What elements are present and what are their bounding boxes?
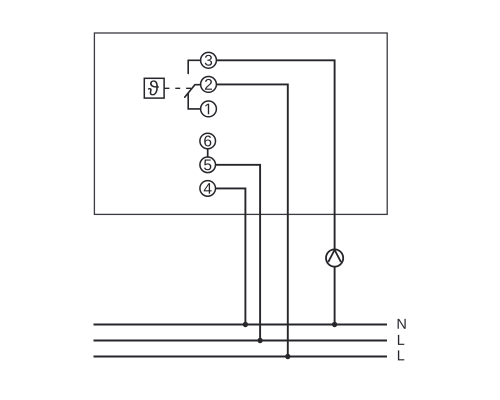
label L2 [398,350,404,360]
bus line L2 [94,356,388,358]
terminal 3 [201,52,217,68]
changeover switch lever (common, terminal 2) [185,85,201,98]
wire terminal 4 to bus N [216,188,246,324]
junction 2-L2 [285,354,290,359]
terminal 6 [200,133,216,149]
bus line N [94,324,388,326]
label N [398,319,406,329]
bus line L1 [94,340,388,342]
terminal 5 [200,157,216,173]
wire terminal 3 to pump [217,60,335,249]
temperature sensor theta symbol [148,80,159,95]
wire terminal 2 to bus L2 [217,84,288,356]
terminal 4 [200,181,216,197]
changeover switch contact lower (to terminal 1) [188,93,200,109]
temperature sensor box [144,78,164,98]
junction pump-N [332,322,337,327]
label L1 [398,335,404,345]
junction 4-N [243,322,248,327]
pump (circle with triangle) [326,249,343,266]
junction 5-L1 [257,338,262,343]
terminal 1 [201,101,217,117]
wire pump to bus N [334,267,336,325]
device outline [94,33,387,214]
terminal 2 [201,77,217,93]
changeover switch contact upper (to terminal 3) [188,60,200,73]
wire terminal 5 to bus L1 [216,165,261,341]
dashed actuator link [165,87,192,89]
wire terminal 6 to terminal 5 [207,149,209,157]
